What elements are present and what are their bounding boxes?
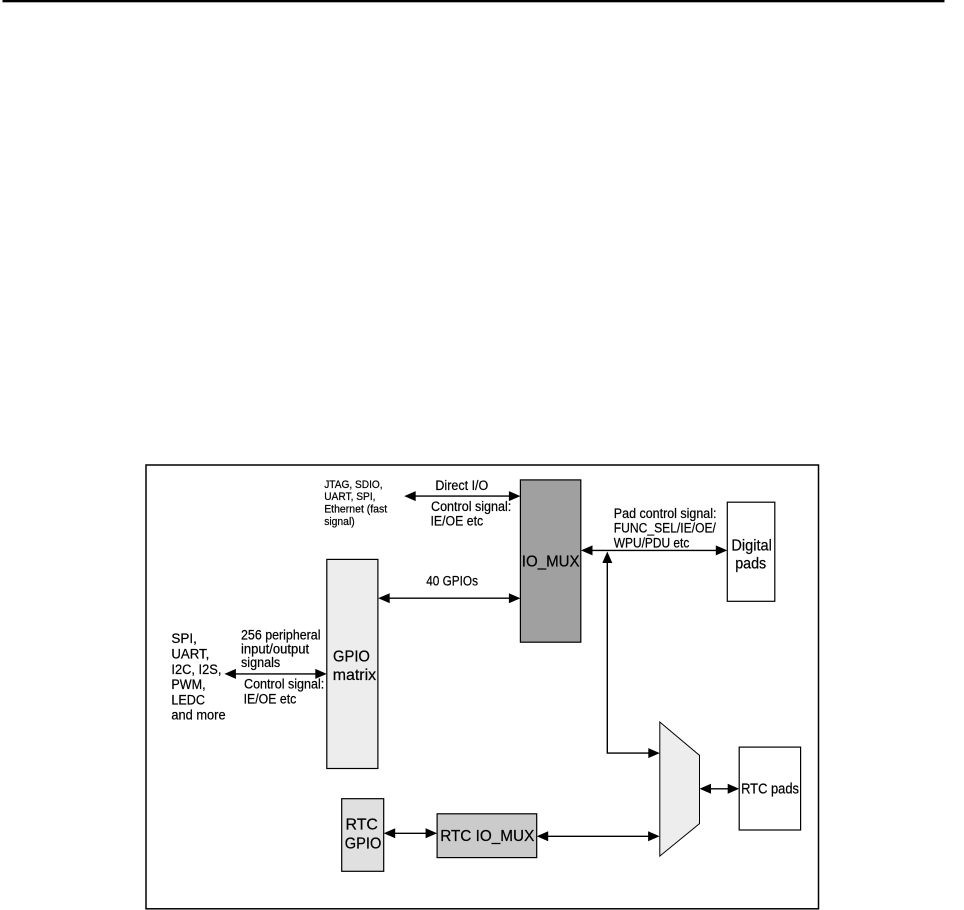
svg-text:40 GPIOs: 40 GPIOs [426, 574, 478, 589]
svg-text:UART, SPI,: UART, SPI, [324, 491, 375, 503]
block RTC GPIO [342, 799, 384, 872]
svg-text:IE/OE etc: IE/OE etc [244, 692, 297, 707]
svg-text:pads: pads [735, 555, 766, 572]
block IO_MUX [520, 480, 580, 642]
text Pad control signal [614, 506, 717, 551]
svg-text:Ethernet (fast: Ethernet (fast [324, 504, 387, 516]
svg-text:FUNC_SEL/IE/OE/: FUNC_SEL/IE/OE/ [614, 521, 716, 536]
L connector IO_MUX pad line to trapezoid [602, 552, 660, 759]
svg-text:RTC IO_MUX: RTC IO_MUX [440, 828, 535, 845]
arrow 256 peripheral (double) [224, 669, 326, 679]
svg-text:Control signal:: Control signal: [244, 677, 324, 692]
svg-text:signals: signals [241, 655, 280, 670]
svg-text:JTAG, SDIO,: JTAG, SDIO, [324, 479, 382, 491]
svg-text:Control signal:: Control signal: [431, 499, 511, 514]
svg-text:GPIO: GPIO [333, 648, 370, 665]
arrow trapezoid to RTC pads (double) [700, 784, 740, 794]
svg-text:RTC pads: RTC pads [741, 781, 799, 798]
arrow 40 GPIOs (double) [378, 593, 520, 603]
block RTC IO_MUX [437, 814, 537, 858]
svg-text:and more: and more [171, 707, 225, 722]
svg-text:IE/OE etc: IE/OE etc [431, 514, 484, 529]
arrow Direct I/O (double) [404, 491, 520, 501]
svg-text:IO_MUX: IO_MUX [522, 554, 580, 571]
arrow RTC GPIO to RTC IO_MUX (double) [384, 828, 437, 838]
text Control signal IE/OE etc (bottom) [244, 677, 325, 707]
svg-text:GPIO: GPIO [345, 835, 382, 852]
svg-text:I2C, I2S,: I2C, I2S, [171, 662, 221, 677]
text 256 peripheral signals [241, 628, 321, 670]
svg-text:256 peripheral: 256 peripheral [241, 628, 321, 643]
svg-text:RTC: RTC [346, 816, 378, 833]
svg-text:matrix: matrix [333, 667, 376, 684]
svg-text:Pad control signal:: Pad control signal: [614, 506, 717, 521]
svg-text:PWM,: PWM, [171, 677, 205, 692]
svg-text:WPU/PDU etc: WPU/PDU etc [614, 536, 690, 551]
block Digital pads [727, 502, 775, 601]
text JTAG SDIO UART SPI Ethernet [324, 479, 387, 528]
block GPIO matrix [327, 559, 378, 768]
svg-text:Direct I/O: Direct I/O [435, 478, 488, 493]
arrow Pad control (double) [581, 545, 727, 555]
text Control signal IE/OE etc (top) [431, 499, 512, 529]
svg-text:UART,: UART, [171, 646, 209, 661]
svg-text:LEDC: LEDC [171, 693, 205, 708]
block RTC pads [739, 747, 800, 830]
trapezoid mux [660, 722, 700, 856]
svg-text:signal): signal) [324, 516, 355, 528]
arrow RTC IO_MUX to trapezoid (double) [537, 831, 660, 841]
text SPI UART I2C list [171, 631, 225, 722]
svg-text:Digital: Digital [731, 538, 772, 555]
svg-text:SPI,: SPI, [171, 631, 197, 646]
